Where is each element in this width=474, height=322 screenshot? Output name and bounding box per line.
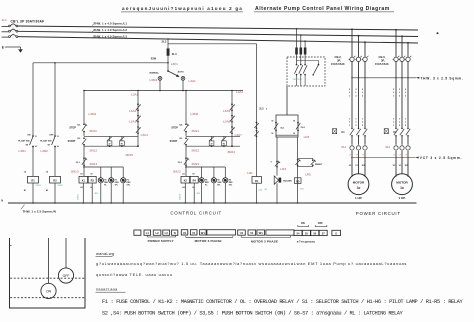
label 3M11 [89, 129, 97, 133]
svg-text:47: 47 [211, 143, 213, 146]
fuse F1 group three poles [295, 28, 306, 64]
svg-text:3M24: 3M24 [192, 162, 200, 166]
pushbutton START S5, pump2 [170, 137, 189, 145]
label 1 HP K1 [355, 196, 362, 200]
contact OL1 aux 95-96 [271, 120, 285, 135]
wire 2L2 phase line [18, 31, 418, 36]
svg-text:ON: ON [27, 134, 31, 136]
svg-text:A2: A2 [182, 186, 184, 189]
wire CB.3 to contactor K2 [396, 62, 408, 129]
leader VCT motor cable [351, 156, 462, 160]
svg-text:saaazLaaa: saaazLaaa [96, 287, 118, 292]
note Thai line 1 [96, 261, 407, 266]
title Thai header text [121, 6, 243, 12]
svg-text:L3: L3 [165, 231, 169, 235]
svg-text:OFF: OFF [63, 274, 70, 278]
svg-text:96: 96 [271, 133, 273, 135]
svg-text:R1: R1 [121, 144, 123, 146]
contact L3A4 [136, 126, 148, 137]
wire pump1 lamp feeder [83, 166, 123, 168]
svg-text:3M14: 3M14 [90, 162, 98, 166]
svg-text:4: 4 [140, 104, 141, 107]
label MOTOR 3 PHASE left [195, 239, 222, 243]
svg-text:L3A7: L3A7 [235, 133, 243, 137]
svg-text:V1: V1 [250, 231, 254, 235]
label cyan pump1 wire B [95, 193, 100, 195]
label OL terminal numbers OL2 [393, 154, 408, 156]
svg-text:LR5: LR5 [305, 173, 311, 177]
wire monitor output to OL box [266, 86, 287, 115]
svg-text:VCT 3 x 2.5 Sqmm.: VCT 3 x 2.5 Sqmm. [420, 156, 462, 160]
label OL1 [341, 146, 346, 149]
svg-text:3M24: 3M24 [227, 150, 235, 154]
label cyan R1 wire [36, 185, 42, 187]
label cyan pump2 wire A [179, 193, 181, 200]
svg-text:S3,: S3, [77, 138, 81, 140]
svg-text:2GR2: 2GR2 [58, 185, 64, 187]
label THW neutral cable [21, 205, 56, 214]
svg-text:N: N [174, 231, 176, 235]
wire float supply rail [33, 62, 169, 64]
label wire numbers K2 [393, 89, 407, 127]
breaker mechanical link [12, 25, 14, 39]
wire float branch S6 [32, 63, 34, 135]
svg-text:S4,: S4, [179, 123, 183, 126]
relay coil R1 [28, 176, 39, 183]
label cyan R2 wire [58, 185, 64, 187]
svg-text:A1: A1 [80, 173, 82, 176]
ground symbol E [2, 45, 23, 53]
svg-text:15AT./15AF.: 15AT./15AF. [375, 62, 389, 66]
relay coil R2 [50, 176, 61, 183]
svg-text:AUTO: AUTO [178, 70, 184, 73]
svg-text:2T2: 2T2 [399, 154, 402, 156]
wire taps breaker CB.2 [351, 28, 366, 57]
terminal block power supply [144, 230, 178, 235]
svg-text:2T1: 2T1 [393, 154, 396, 156]
wire pump2 lamp feeder [185, 166, 225, 168]
contact K1 aux seal-in [107, 136, 112, 147]
svg-text:L3M1: L3M1 [89, 112, 97, 116]
svg-text:Gnd: Gnd [258, 190, 262, 192]
contact L3A7 [230, 126, 242, 137]
title: Alternate Pump Control Panel Wiring Diagram [254, 6, 394, 12]
pushbutton STOP S4, pump2 [171, 123, 189, 132]
contact L3A5 [223, 103, 235, 112]
svg-text:L3F1: L3F1 [171, 62, 178, 66]
enclosure dashed box phase monitor [287, 57, 325, 86]
legend line 1 [102, 299, 463, 305]
terminal block motor 1 [181, 230, 235, 235]
pilot lamp H6 pump2 [223, 167, 233, 204]
contact 3M14 overload aux [76, 157, 98, 166]
pushbutton START S3, pump1 [68, 137, 87, 145]
label L3M2 [191, 112, 199, 116]
svg-text:A2: A2 [80, 186, 82, 189]
wire manual drop [159, 80, 161, 91]
svg-text:96: 96 [293, 133, 295, 135]
svg-text:3M13: 3M13 [71, 169, 79, 173]
label THW cable L2 [92, 28, 127, 32]
svg-text:CB.2,: CB.2, [335, 55, 342, 59]
wire R4 coil to neutral [193, 183, 195, 204]
pilot lamp H4 pump2 [199, 167, 209, 204]
svg-text:STOP: STOP [69, 126, 76, 129]
contactor K1 aux box [333, 129, 346, 135]
buzzer BZ [274, 176, 292, 184]
svg-text:G: G [335, 233, 337, 236]
svg-text:2L3: 2L3 [162, 40, 167, 44]
label 3M12 [89, 148, 97, 152]
label L3M1 [89, 112, 97, 116]
label OL2 [385, 146, 390, 149]
svg-text:CONTROL CIRCUIT: CONTROL CIRCUIT [170, 210, 222, 215]
pilot lamp H3 pump1 [121, 167, 131, 204]
wire K2 coil to neutral [185, 183, 187, 204]
svg-text:OL2,: OL2, [301, 127, 306, 129]
wire pump2 manual line [185, 90, 187, 125]
wire float branch S7 [54, 63, 56, 135]
motor M K2 1HP [392, 174, 413, 195]
svg-text:OL1: OL1 [341, 146, 346, 149]
wire R2 to neutral [46, 183, 56, 204]
breaker CB'L label [11, 20, 45, 24]
label cyan pump1 wire A [77, 193, 79, 200]
svg-text:W1: W1 [201, 231, 206, 235]
label POWER SUPPLY [148, 239, 174, 243]
wire reset branch [297, 137, 299, 204]
svg-text:3: 3 [140, 116, 141, 118]
svg-text:R2: R2 [53, 179, 57, 183]
svg-text:RD: RD [296, 181, 300, 183]
svg-text:L3R1: L3R1 [19, 149, 27, 153]
svg-text:L3R2: L3R2 [41, 149, 49, 153]
label 3M22 [191, 148, 199, 152]
wire 2L1 phase line [18, 26, 418, 30]
svg-text:N: N [1, 199, 3, 202]
terminal block float switches [294, 230, 341, 235]
tank outline [10, 238, 86, 308]
float switch S6 [18, 134, 36, 147]
label L3A1 selector [189, 79, 197, 83]
svg-text:FLOAT SW.: FLOAT SW. [40, 139, 52, 142]
svg-text:OFF: OFF [318, 222, 323, 225]
contact LR4 cutoff [271, 161, 281, 168]
float ON [41, 238, 56, 299]
note Thai line 2 [96, 272, 173, 277]
svg-text:3: 3 [234, 116, 235, 118]
svg-text:14: 14 [35, 145, 37, 148]
pushbutton STOP S2, pump1 [69, 123, 87, 132]
contact L3A2 [129, 103, 141, 112]
wire K1 coil to neutral [83, 183, 85, 204]
svg-text:MANUAL: MANUAL [150, 72, 160, 75]
svg-text:95: 95 [293, 120, 295, 122]
pilot lamp H2 pump1 [109, 167, 120, 204]
circuit breaker CB.2 3P 15AT/15AF [349, 56, 369, 62]
svg-text:R2: R2 [223, 144, 225, 146]
svg-text:SUP CON: SUP CON [293, 79, 303, 81]
label float switch Thai [297, 240, 316, 244]
bracket power supply [147, 235, 175, 237]
svg-text:POWER CIRCUIT: POWER CIRCUIT [356, 211, 401, 216]
svg-text:L2: L2 [156, 231, 160, 235]
svg-text:8: 8 [234, 127, 235, 129]
svg-text:ON: ON [301, 222, 305, 225]
svg-text:W1: W1 [259, 231, 264, 235]
svg-text:FLOAT SW.: FLOAT SW. [18, 139, 30, 142]
svg-text:a?nsgnaau: a?nsgnaau [297, 240, 316, 244]
svg-text:R5C: R5C [300, 188, 305, 190]
svg-text:aoruqunJuuuni?1wapvuni a1uou 2: aoruqunJuuuni?1wapvuni a1uou 2 ga [122, 6, 243, 11]
svg-text:S5,: S5, [179, 138, 183, 140]
svg-text:L3A5: L3A5 [223, 109, 231, 113]
svg-text:LRL: LRL [247, 171, 253, 175]
svg-text:POWER SUPPLY: POWER SUPPLY [148, 239, 174, 243]
wire buzzer branch [276, 137, 278, 176]
label THW cable L1 [92, 22, 127, 26]
svg-text:L3A6: L3A6 [223, 120, 231, 124]
label ON OFF float terminals [298, 222, 327, 227]
svg-text:L3A1: L3A1 [189, 79, 197, 83]
svg-text:RESET: RESET [315, 164, 323, 166]
wire latching relay feed [256, 44, 258, 177]
contact L3A6 [223, 115, 235, 124]
svg-text:S2 ,S4: PUSH BOTTON SWITCH (OF: S2 ,S4: PUSH BOTTON SWITCH (OFF) / S3,S5… [102, 311, 404, 317]
label LR4 [280, 167, 286, 171]
label 1 HP K2 [398, 196, 405, 200]
terminal AUTO contact [181, 77, 185, 81]
wire CB.2 to contactor K1 [352, 62, 365, 129]
contact LR5 on reset line [296, 159, 301, 166]
svg-text:13: 13 [57, 136, 59, 138]
svg-text:3M21: 3M21 [191, 129, 199, 133]
svg-text:g?uLwanaaaaunuuq?wan?wua?wu? 1: g?uLwanaaaaunuuq?wan?wua?wu? 1.5 uu. Taa… [96, 261, 407, 266]
bracket motor 2 [241, 236, 290, 238]
wire K1 to overload OL1 [352, 136, 365, 145]
label CONTROL CIRCUIT [170, 210, 222, 215]
svg-text:15AT./15AF.: 15AT./15AF. [331, 62, 345, 66]
label cyan monitor box [293, 79, 303, 81]
svg-text:wanaLwg: wanaLwg [96, 251, 114, 256]
svg-text:E: E [2, 45, 4, 49]
svg-text:LR3: LR3 [304, 135, 310, 139]
label 3M23 [173, 169, 181, 173]
label 3M15 right [125, 153, 133, 157]
wire S7 to relay R2 [46, 147, 55, 177]
svg-text:qunsnil?aawa TELE. uaau uacuu: qunsnil?aawa TELE. uaau uacuu [96, 272, 173, 277]
wire pump2 seal-in upper rail [186, 132, 240, 137]
label OL terminal numbers OL1 [349, 154, 365, 156]
contact OL2 aux 95-96 [293, 120, 305, 135]
svg-text:OL2: OL2 [385, 146, 390, 149]
label ESW [151, 58, 157, 60]
contactor coil K2 [181, 173, 190, 190]
pilot lamp H5 pump2 [211, 167, 222, 204]
contact 3M24 overload aux [178, 157, 200, 166]
label POWER CIRCUIT [356, 211, 401, 216]
svg-text:F1 : FUSE CONTROL / K1-K2 : MA: F1 : FUSE CONTROL / K1-K2 : MAGNETIC CON… [102, 299, 463, 305]
svg-text:2T1: 2T1 [349, 154, 352, 156]
svg-text:Alternate Pump Control Panel W: Alternate Pump Control Panel Wiring Diag… [255, 6, 390, 12]
wire neutral rail N [1, 199, 416, 203]
leader THW motor cable [351, 76, 463, 80]
wire 2L3 tap vertical [167, 38, 169, 48]
svg-text:ON: ON [46, 289, 52, 293]
label 3M13 [71, 169, 79, 173]
svg-text:4: 4 [234, 104, 235, 107]
contact R aux seal-in pump1 [120, 136, 125, 147]
fuse 2L4 control fuse [167, 48, 177, 55]
wire auto column 2 [231, 90, 233, 147]
label motor leads U1 V1 W1 [349, 165, 366, 167]
svg-text:L3A1: L3A1 [236, 90, 244, 94]
speck mark [436, 32, 438, 34]
wire S6 to relay R1 [24, 147, 33, 177]
latching relay coil RL [252, 177, 262, 184]
svg-text:L1: L1 [146, 231, 150, 235]
svg-text:THW. 1 x 4.0 Sqmm./L1: THW. 1 x 4.0 Sqmm./L1 [94, 22, 128, 26]
wire OL1 to motor [352, 151, 365, 177]
relay coil R3 pump1 [88, 174, 96, 190]
node 1L1 label [2, 18, 7, 22]
svg-text:U1: U1 [240, 231, 244, 235]
label THW cable L3 [92, 34, 127, 38]
svg-text:L3M12: L3M12 [179, 193, 181, 200]
svg-text:THW. 1 x 4.0 Sqmm./L3: THW. 1 x 4.0 Sqmm./L3 [94, 34, 128, 38]
svg-text:S2,: S2, [77, 124, 81, 126]
svg-text:U1: U1 [183, 231, 187, 235]
svg-text:3M23: 3M23 [173, 169, 181, 173]
motor M K1 1HP [348, 174, 369, 195]
float switch S7 [40, 134, 58, 147]
note header Thai [96, 251, 115, 257]
svg-text:2L3: 2L3 [259, 108, 264, 111]
svg-text:2T2: 2T2 [356, 154, 359, 156]
enclosure OL aux box [276, 115, 298, 137]
svg-text:R1: R1 [31, 179, 35, 183]
wire OL2 to motor [396, 151, 408, 177]
svg-text:THW. 3 x 2.5 Sqmm.: THW. 3 x 2.5 Sqmm. [421, 76, 464, 80]
terminal MANUAL contact [158, 77, 162, 81]
svg-text:A1: A1 [182, 173, 184, 176]
contact L3A3 [129, 115, 141, 124]
svg-text:2L4: 2L4 [172, 52, 177, 56]
svg-text:L3M11: L3M11 [77, 193, 79, 200]
label L3R1 [19, 149, 27, 153]
wire pump1 seal-in lower rail [84, 145, 138, 147]
switch inside monitor box [297, 61, 320, 76]
contactor K1 main contacts [350, 128, 367, 137]
svg-text:BUZZER: BUZZER [283, 180, 292, 182]
svg-text:3P,: 3P, [337, 58, 341, 62]
label LRL [247, 171, 253, 175]
wire buzzer to neutral [276, 183, 278, 204]
label cyan buzzer wire [265, 189, 268, 191]
tank level high dashed [10, 277, 84, 279]
svg-text:MOTOR: MOTOR [353, 180, 365, 184]
svg-text:3M12: 3M12 [89, 148, 97, 152]
contactor coil K1 [79, 173, 88, 190]
pilot lamp RD trip [294, 178, 301, 184]
svg-text:L3M1: L3M1 [149, 78, 157, 82]
contact RL aux upper [254, 122, 258, 129]
wire pump1 seal-in upper rail [84, 132, 138, 137]
wire control top rail [84, 90, 243, 92]
svg-text:3M15: 3M15 [125, 153, 133, 157]
wire pump1 manual line [83, 90, 85, 125]
legend line 2 [102, 311, 404, 317]
wire auto drop [182, 80, 184, 91]
wire K2 to overload OL2 [396, 136, 408, 145]
wire 2L3 horizontal to latching relay [168, 39, 257, 44]
svg-text:47: 47 [109, 143, 111, 146]
svg-text:3ø: 3ø [400, 186, 404, 190]
label CB.2 [331, 55, 345, 66]
wire pump2 seal-in lower rail [186, 145, 240, 147]
svg-text:CB.3,: CB.3, [379, 55, 386, 59]
svg-text:3ø: 3ø [357, 186, 361, 190]
svg-text:START: START [68, 140, 76, 143]
pushbutton RESET bypass [298, 158, 323, 166]
svg-text:START: START [170, 140, 178, 143]
svg-text:L3A3: L3A3 [129, 120, 137, 124]
svg-text:14: 14 [57, 145, 59, 148]
terminal ground G left [134, 230, 141, 235]
label 3M21 [191, 129, 199, 133]
svg-text:A2: A2 [46, 189, 48, 192]
node 2L3 tap label [162, 40, 167, 44]
svg-text:LR4: LR4 [280, 167, 286, 171]
wire RL to neutral [256, 183, 262, 204]
svg-text:MOTOR 3 PHASE: MOTOR 3 PHASE [251, 239, 278, 243]
svg-text:8: 8 [140, 127, 141, 129]
svg-text:V1: V1 [192, 231, 196, 235]
svg-text:A1: A1 [24, 189, 26, 192]
svg-text:1 HP.: 1 HP. [355, 196, 362, 200]
svg-text:95: 95 [271, 120, 273, 122]
svg-text:MOTOR: MOTOR [396, 180, 408, 184]
label RL wire [259, 108, 264, 111]
wire R1 to neutral [24, 183, 34, 204]
svg-text:9: 9 [271, 161, 272, 163]
details header Thai [96, 287, 126, 293]
label L3M1 selector [149, 78, 157, 82]
svg-text:L3A1: L3A1 [131, 93, 139, 97]
pilot lamp H1 pump1 [98, 167, 108, 204]
wire 2L3 phase line [18, 37, 418, 43]
label cyan reset wire [300, 188, 305, 190]
relay coil R4 pump2 [190, 174, 198, 190]
svg-text:THW. 1 x 2.5 Sqmm./N: THW. 1 x 2.5 Sqmm./N [23, 210, 56, 214]
overload relay OL1 heaters [350, 146, 367, 151]
label L3A1 rail right [236, 90, 244, 94]
label LR5 [305, 173, 311, 177]
svg-text:L3A2: L3A2 [129, 109, 137, 113]
wire taps breaker CB.3 [395, 29, 409, 57]
contact set inside monitor box [295, 64, 308, 86]
svg-text:L3M2: L3M2 [191, 112, 199, 116]
label LR3 [304, 135, 310, 139]
wire auto column 1 [137, 90, 139, 147]
selector switch S1 MANUAL-AUTO [150, 70, 184, 77]
svg-text:2T3: 2T3 [362, 154, 365, 156]
contact RL aux lower [254, 130, 258, 137]
svg-text:L3A4: L3A4 [141, 133, 149, 137]
wire R3 coil to neutral [91, 183, 93, 204]
label motor leads U1 V1 W1 [393, 165, 409, 167]
svg-text:3M22: 3M22 [191, 148, 199, 152]
